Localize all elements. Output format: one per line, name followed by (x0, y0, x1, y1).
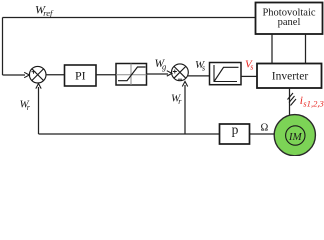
motor IM inner circle (286, 126, 305, 145)
V/f ramp block (210, 63, 242, 85)
block Inverter (257, 64, 322, 89)
svg-text:Ω: Ω (261, 123, 269, 134)
wire into summing junction S1 (3, 74, 26, 76)
wire PI to saturation block (96, 74, 116, 76)
wire W_ref left vertical (2, 18, 4, 76)
summing junction S2 (172, 64, 189, 81)
svg-text:IM: IM (288, 131, 303, 143)
S2 minus sign (178, 78, 182, 80)
wire inverter to motor (289, 88, 291, 115)
wire W_ref top horizontal (3, 17, 256, 19)
svg-text:g: g (162, 62, 166, 72)
summing junction S1 (29, 66, 46, 83)
svg-text:ref: ref (43, 8, 54, 18)
svg-text:s1,2,3: s1,2,3 (303, 99, 324, 109)
svg-text:panel: panel (278, 17, 301, 28)
block PI (65, 65, 97, 86)
saturation block (116, 64, 147, 86)
feedback branch to S2 (184, 85, 186, 134)
wire Vf to inverter (241, 75, 257, 77)
svg-text:s: s (202, 63, 205, 72)
DC bus wire right PV to inverter (305, 34, 307, 64)
three-phase slash marks (288, 93, 297, 106)
svg-text:p: p (232, 122, 239, 137)
wire S2 to Vf block (187, 75, 209, 77)
svg-text:PI: PI (75, 69, 86, 83)
wire saturation to S2 (147, 73, 169, 75)
S2 plus sign (173, 70, 177, 74)
DC bus wire left PV to inverter (271, 34, 273, 64)
feedback branch to S1 (38, 87, 40, 134)
block p (220, 124, 250, 144)
svg-text:Inverter: Inverter (272, 71, 309, 83)
wire IM to p block (250, 133, 275, 135)
motor IM outer circle (274, 115, 315, 156)
wire S1 to PI (46, 74, 65, 76)
feedback wire bottom (39, 133, 220, 135)
S1 plus sign (32, 70, 36, 74)
block Photovoltaic panel (256, 3, 323, 35)
svg-text:s: s (250, 63, 253, 72)
